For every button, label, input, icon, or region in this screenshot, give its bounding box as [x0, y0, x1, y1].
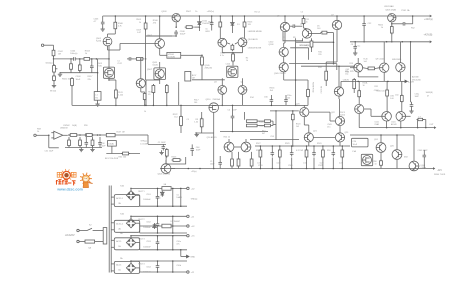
label C5N 1.00 — [390, 96, 394, 101]
ground C57 — [159, 150, 163, 154]
label -42V — [437, 170, 442, 172]
wire — [303, 16, 305, 19]
label R506 1k — [378, 24, 384, 29]
transistor Q13 MJE15031 — [396, 63, 405, 72]
logo char wei — [56, 180, 62, 185]
wire — [157, 246, 159, 250]
wire — [332, 158, 334, 169]
node — [295, 105, 297, 107]
label GND — [190, 257, 195, 259]
svg-text:C5: C5 — [187, 119, 189, 121]
wire — [146, 35, 172, 37]
wire — [410, 101, 413, 103]
svg-text:CW502: CW502 — [63, 125, 71, 127]
label 0.22 — [339, 163, 343, 165]
node — [386, 41, 388, 43]
wire — [141, 91, 145, 93]
svg-text:W 500: W 500 — [50, 91, 57, 93]
node — [145, 58, 147, 60]
capacitor C503 470p — [423, 153, 427, 159]
label R527 — [256, 150, 261, 152]
arrow -42V(a) feed — [402, 80, 407, 82]
wire — [271, 158, 273, 169]
svg-text:C510: C510 — [226, 64, 231, 66]
logo badge ring — [63, 171, 71, 179]
label C56 — [264, 97, 269, 99]
wire emitter link — [358, 76, 378, 78]
resistor R507 1k — [185, 26, 194, 29]
wire — [53, 56, 55, 59]
label R523 — [172, 156, 178, 158]
wire — [91, 59, 93, 64]
node — [130, 235, 132, 237]
bridge rectifier RECT3 — [126, 238, 135, 247]
wire — [180, 250, 182, 257]
terminal +42 r2 — [187, 225, 189, 227]
wire — [257, 120, 264, 122]
label 1k — [144, 111, 146, 113]
wire — [231, 16, 233, 21]
svg-text:C50: C50 — [395, 95, 398, 97]
svg-text:Q506 2SA950: Q506 2SA950 — [158, 172, 171, 175]
label 2SC5200 — [412, 79, 422, 81]
label MJ2 — [404, 157, 409, 159]
resistor R62 100 — [121, 152, 130, 155]
wire — [97, 100, 99, 102]
wire — [198, 26, 200, 31]
label C509 0.47 — [136, 29, 142, 34]
label R51A 10 — [363, 82, 368, 88]
wire — [401, 81, 403, 95]
label R506 470 — [153, 20, 159, 25]
label BL57 1M — [192, 75, 196, 80]
svg-text:RECT2: RECT2 — [138, 219, 144, 221]
resistor R504 47k — [70, 62, 73, 71]
label C502 1M — [58, 51, 64, 56]
capacitor C551 10000u — [156, 194, 160, 200]
inductor L501 — [94, 92, 101, 101]
label C552 — [146, 222, 151, 224]
svg-text:R520 100: R520 100 — [376, 91, 384, 93]
node — [291, 145, 293, 147]
ground C17 — [409, 109, 413, 113]
wire — [341, 146, 343, 150]
wire — [283, 43, 285, 47]
svg-text:R527: R527 — [256, 150, 261, 152]
label winding S4 — [116, 264, 122, 267]
label C50 — [395, 95, 398, 97]
wire Q10 collector — [338, 66, 340, 87]
label MJE15030 — [392, 59, 401, 61]
node — [363, 41, 365, 43]
label #D511 — [155, 198, 160, 200]
label C50a 47u — [176, 241, 181, 246]
ground L501 — [95, 102, 99, 106]
label R19 — [350, 63, 353, 65]
svg-text:A1943: A1943 — [391, 123, 396, 126]
label Q9 C2240 — [376, 59, 385, 61]
svg-text:R529: R529 — [285, 143, 290, 145]
logo left char — [57, 172, 62, 177]
label R24 — [318, 67, 323, 69]
transistor Q26 2SA1943 — [392, 150, 402, 160]
wire — [191, 144, 193, 146]
terminal GND arrow — [184, 255, 190, 258]
capacitor C512 100p — [127, 57, 133, 61]
wire — [145, 36, 147, 80]
transistor Q504 2SK30 — [103, 67, 114, 78]
node — [275, 110, 277, 112]
label 1k(B) — [72, 125, 77, 127]
label C24 — [353, 141, 358, 143]
wire — [63, 134, 68, 136]
svg-text:C554: C554 — [146, 266, 151, 268]
wire — [313, 146, 315, 151]
svg-text:1k: 1k — [381, 27, 383, 29]
svg-text:C58: C58 — [270, 136, 273, 138]
wire — [411, 109, 413, 110]
label R52 — [411, 27, 416, 29]
resistor R524 0.22 5W — [305, 149, 308, 159]
wire — [109, 79, 116, 81]
label R512 120 — [208, 22, 214, 27]
node — [175, 35, 177, 37]
label 47 — [427, 96, 429, 98]
label R58 10 — [373, 161, 376, 165]
label C554 value — [143, 272, 151, 274]
logo url www.dzsc.com — [56, 188, 83, 192]
svg-text:RECT3: RECT3 — [138, 238, 144, 240]
wire — [102, 26, 104, 28]
label C508 100uF — [180, 31, 186, 36]
svg-text:47u: 47u — [176, 244, 179, 246]
wire — [271, 120, 274, 122]
terminal -42 r2 — [187, 215, 189, 217]
wire — [175, 29, 177, 31]
wire — [413, 135, 415, 161]
wire — [157, 200, 159, 206]
label A1943/ — [412, 76, 419, 79]
label U202 BA8 — [384, 5, 394, 8]
node — [172, 216, 174, 218]
label C504 100u(a) — [70, 51, 77, 56]
svg-text:-42V: -42V — [437, 170, 442, 172]
wire — [270, 104, 272, 106]
wire — [157, 216, 159, 221]
wire — [222, 52, 242, 54]
node — [260, 145, 262, 147]
label Q5 — [277, 16, 281, 18]
label C55 2k — [306, 19, 309, 23]
wire — [115, 98, 117, 105]
node — [292, 145, 294, 147]
svg-text:1.5k: 1.5k — [194, 122, 198, 124]
node — [145, 105, 147, 107]
ground bus left — [58, 72, 62, 76]
label D1 — [237, 24, 240, 26]
svg-text:LM4558: LM4558 — [60, 127, 68, 129]
ground input — [52, 83, 56, 87]
label R507 — [186, 11, 192, 13]
fuse FU 5A — [79, 240, 103, 243]
wire — [275, 111, 277, 125]
label 4.7 — [418, 116, 421, 118]
bridge rectifier RECT4 — [126, 263, 135, 272]
transistor Q20 2SC3423 — [300, 108, 309, 117]
terminal -42V arrow — [433, 167, 435, 170]
wire — [191, 153, 193, 157]
label C551 value — [143, 199, 151, 201]
transformer T2 secondary S2 — [114, 220, 139, 232]
label C509 47u — [327, 124, 332, 129]
label R10 220 — [318, 52, 321, 57]
transistor Q305 2SA1943 — [388, 14, 396, 22]
wire — [175, 35, 177, 37]
node — [222, 105, 224, 107]
resistor R500 100 — [53, 74, 56, 82]
wire — [159, 48, 161, 55]
svg-text:AC15: AC15 — [116, 264, 122, 267]
wire — [391, 34, 393, 42]
label R-16 1u8 — [364, 59, 368, 64]
wire — [97, 73, 99, 92]
wire — [140, 134, 148, 136]
label C1 100P — [210, 161, 215, 166]
wire — [333, 33, 335, 64]
label R51b 1k4 — [270, 88, 276, 93]
label C5 10A04 — [176, 194, 181, 199]
label -42(a) — [191, 171, 197, 173]
node — [172, 249, 174, 251]
svg-text:Q505: Q505 — [205, 65, 211, 67]
wire — [91, 70, 93, 73]
svg-text:C512: C512 — [117, 63, 122, 65]
wire — [336, 16, 338, 20]
logo mascot body — [83, 182, 89, 188]
resistor R32 100 — [400, 94, 403, 103]
terminal +15 — [187, 235, 189, 237]
node — [97, 134, 99, 136]
wire — [180, 188, 182, 206]
svg-text:Q503: Q503 — [161, 11, 167, 13]
node — [391, 41, 393, 43]
wire — [285, 95, 287, 98]
node — [92, 134, 94, 136]
wire — [213, 133, 215, 169]
wire — [423, 119, 426, 121]
node — [99, 134, 101, 136]
wire — [92, 137, 94, 139]
label winding S3 current — [118, 245, 121, 248]
node — [172, 235, 174, 237]
wire psu row2 bot — [140, 232, 187, 234]
node — [180, 249, 182, 251]
svg-text:C8: C8 — [351, 44, 353, 46]
label Q503 K30 — [97, 63, 103, 68]
label 2A — [164, 183, 167, 186]
capacitor shunt strip — [98, 140, 102, 146]
resistor R2 1k — [232, 53, 235, 63]
wire — [339, 126, 341, 133]
svg-text:4k7: 4k7 — [262, 133, 265, 135]
wire — [290, 25, 291, 27]
wire — [157, 228, 159, 233]
svg-text:C5 100P: C5 100P — [300, 45, 308, 47]
wire — [244, 29, 246, 38]
svg-text:C520: C520 — [258, 165, 263, 167]
wire winding1 stub a — [111, 196, 114, 198]
label Q506 2SA950 — [158, 172, 171, 175]
wire — [371, 115, 382, 117]
label R511 1.2k0 — [118, 92, 123, 97]
label C50b — [176, 265, 181, 267]
svg-text:4.7k: 4.7k — [118, 25, 122, 27]
transistor Q502 2SA970 — [155, 39, 165, 49]
svg-text:R51: R51 — [375, 86, 378, 88]
wire — [391, 22, 393, 26]
label C552 value — [143, 227, 151, 229]
svg-text:C5x: C5x — [345, 74, 348, 76]
transistor Q7 2SC3423 — [332, 20, 341, 29]
wire — [232, 61, 234, 66]
label winding S2 — [116, 223, 124, 226]
wire — [328, 32, 334, 34]
wire — [284, 79, 308, 81]
terminal +42 r1 — [187, 187, 189, 189]
wire — [322, 146, 324, 150]
svg-text:GND(a): GND(a) — [191, 198, 198, 200]
label R17 4k7 — [262, 131, 265, 136]
label Q508 C5040 — [152, 62, 158, 66]
wire — [380, 135, 382, 143]
box snubber C24 — [352, 138, 369, 147]
resistor R506b 1k — [390, 25, 393, 35]
wire — [157, 270, 159, 273]
resistor R1 100 — [231, 44, 234, 52]
svg-text:10: 10 — [363, 85, 365, 87]
svg-text:#D511: #D511 — [155, 198, 160, 200]
wire — [407, 23, 413, 25]
wire — [213, 112, 215, 133]
label T2 row 3 — [120, 232, 123, 235]
terminal +42V(B) arrow — [430, 40, 432, 43]
node — [391, 23, 393, 25]
wire — [92, 146, 94, 147]
label 2SK30A — [213, 98, 221, 101]
wire — [245, 139, 247, 142]
wire — [71, 86, 73, 105]
capacitor C52 100u — [362, 22, 366, 28]
terminal -42 r4 — [187, 271, 189, 273]
wire — [219, 166, 221, 168]
label BL57 1M — [117, 132, 125, 134]
wire Q11 base stub — [350, 67, 354, 69]
wire — [313, 136, 335, 138]
wire Q20 base net — [270, 110, 299, 112]
wire — [232, 53, 234, 54]
label C553 — [146, 241, 151, 243]
resistor R513 470 — [152, 84, 155, 94]
resistor R512b 120 — [219, 21, 222, 29]
svg-text:C1 100P: C1 100P — [158, 142, 166, 144]
node — [180, 188, 182, 190]
label RECT1 — [138, 191, 144, 193]
wire — [270, 95, 272, 98]
label R2 1k — [246, 58, 248, 63]
svg-text:2SC5200: 2SC5200 — [412, 79, 422, 81]
resistor R63 1k — [165, 148, 168, 158]
wire — [231, 152, 233, 158]
node — [387, 81, 389, 83]
wire — [279, 146, 281, 150]
svg-text:AC220V: AC220V — [64, 233, 75, 237]
logo char xia — [72, 181, 76, 186]
wire — [227, 43, 230, 44]
svg-text:GND: GND — [190, 257, 195, 259]
wire — [107, 46, 109, 50]
wire psu row3 bot — [140, 249, 187, 251]
wire — [91, 58, 109, 60]
svg-text:R19: R19 — [350, 63, 353, 65]
node — [79, 58, 81, 60]
label AC220V — [64, 233, 75, 237]
label Q501 K246 — [96, 38, 102, 43]
wire — [399, 42, 401, 63]
node — [412, 15, 414, 17]
resistor R11 1.2k — [325, 70, 328, 82]
capacitor C553 10000u — [156, 240, 160, 246]
label R51b 45 — [148, 92, 153, 97]
logo char ku — [62, 180, 68, 185]
label C5A E1 — [343, 79, 349, 82]
resistor shunt strip — [68, 139, 71, 148]
label W 500 — [50, 91, 57, 93]
wire — [272, 121, 274, 125]
resistor R13 100 — [307, 88, 310, 98]
wire — [383, 42, 385, 63]
wire — [201, 54, 203, 56]
label R500 100 — [62, 79, 72, 81]
wire — [219, 29, 221, 39]
wire — [399, 72, 401, 81]
node — [201, 55, 203, 57]
resistor R26 470 — [231, 158, 234, 168]
node — [380, 134, 382, 136]
wire — [307, 80, 309, 90]
node — [306, 145, 308, 147]
label Q26 — [390, 146, 395, 148]
label -42 — [191, 272, 195, 274]
wire psu col2 — [172, 216, 174, 233]
wire right drop — [410, 42, 412, 102]
wire psu row4 top — [131, 260, 187, 262]
label -42 — [191, 216, 195, 218]
svg-text:C551: C551 — [146, 194, 151, 196]
wire — [329, 112, 331, 121]
node fb — [48, 135, 50, 137]
wire ch2 rail — [255, 145, 345, 147]
wire — [383, 72, 385, 81]
label RECT4 — [138, 264, 144, 266]
svg-text:Q16 A1015: Q16 A1015 — [207, 136, 218, 139]
svg-text:R62 100: R62 100 — [119, 157, 127, 159]
label 0.22 — [277, 163, 281, 165]
node — [157, 249, 159, 251]
label R50b — [259, 126, 264, 128]
wire — [284, 32, 286, 43]
logo mascot eyes — [85, 177, 88, 180]
label R50a — [259, 121, 264, 123]
